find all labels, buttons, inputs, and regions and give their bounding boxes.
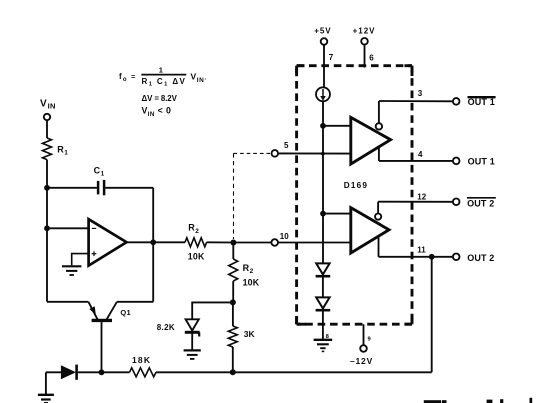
- svg-text:fo =: fo =: [119, 72, 137, 83]
- svg-text:VIN < 0: VIN < 0: [142, 106, 172, 118]
- node junction bottom: [230, 369, 236, 375]
- wire to zener branch: [192, 302, 233, 318]
- wire op-amp inverting input: [47, 227, 89, 229]
- svg-text:7: 7: [329, 53, 334, 62]
- svg-text:9: 9: [368, 337, 372, 343]
- wire bubble to pin12: [377, 202, 379, 214]
- wire R2 to junction: [207, 241, 234, 243]
- svg-text:6: 6: [369, 54, 374, 63]
- wire op-amp output: [127, 241, 154, 243]
- formula fo = 1/(R1 C1 dV) VIN: [119, 66, 207, 88]
- terminal pin 10: [271, 239, 278, 246]
- node junction buffer2: [320, 211, 326, 217]
- wire pin 3 out: [379, 100, 453, 102]
- wire op-amp noninverting stub: [72, 254, 89, 266]
- wire to buffer2 input: [323, 213, 351, 215]
- wire pin 12 out: [378, 201, 453, 203]
- svg-text:11: 11: [417, 245, 426, 254]
- op-amp U1: [89, 219, 127, 265]
- wire between diodes: [322, 276, 324, 297]
- node junction feedback: [429, 254, 435, 260]
- minus mark: [92, 227, 96, 229]
- svg-text:D169: D169: [344, 181, 368, 190]
- node output junction: [150, 239, 156, 245]
- wire junction to R2v: [232, 243, 234, 260]
- wire +5V pin 7: [323, 45, 325, 88]
- wire 3K to bottom rail: [232, 347, 234, 372]
- wire stub to ground: [45, 372, 47, 394]
- wire pin10 into box: [278, 242, 351, 244]
- wire junction to 3K: [232, 302, 234, 326]
- plus mark: [92, 251, 97, 256]
- buffer U2a: [351, 117, 391, 164]
- node junction: [44, 225, 50, 231]
- ground op-amp: [62, 266, 81, 275]
- wire pin5 into box: [278, 152, 351, 154]
- wire output to R2: [153, 241, 185, 243]
- terminal OUT1: [453, 156, 495, 166]
- svg-text:3K: 3K: [244, 329, 256, 339]
- svg-text:R2: R2: [188, 223, 199, 235]
- wire C1 to right rail: [105, 187, 153, 189]
- svg-text:–12V: –12V: [350, 356, 373, 366]
- wire buffer2 lower output stub: [378, 236, 380, 257]
- terminal pin 5: [272, 150, 279, 157]
- wire bottom rail left: [46, 371, 62, 373]
- node junction buffer1: [320, 123, 326, 129]
- node junction: [99, 369, 105, 375]
- wire current source down rail: [322, 101, 324, 263]
- resistor 18K: [130, 355, 156, 377]
- svg-text:+5V: +5V: [314, 27, 331, 36]
- resistor R1: [43, 138, 52, 160]
- terminal +5V: [314, 27, 331, 45]
- svg-text:R1: R1: [57, 144, 68, 156]
- svg-text:3: 3: [418, 89, 423, 98]
- terminal VIN: [44, 114, 50, 120]
- diode D2 in box: [316, 263, 331, 276]
- wire junction to pin10 terminal: [233, 242, 271, 244]
- node junction R2s: [230, 240, 236, 246]
- wire buffer1 lower output stub: [378, 147, 380, 161]
- node junction: [44, 185, 50, 191]
- dashed box D169 package: [297, 66, 412, 325]
- resistor R2 horizontal 10K: [185, 223, 207, 262]
- svg-text:8.2K: 8.2K: [157, 323, 175, 332]
- svg-text:10K: 10K: [243, 277, 260, 287]
- node junction 8.2K branch: [230, 299, 236, 305]
- svg-text:ΔV = 8.2V: ΔV = 8.2V: [142, 94, 178, 103]
- svg-text:12: 12: [417, 193, 426, 202]
- buffer U2b: [351, 208, 389, 253]
- terminal OUT2 inverted: [453, 198, 496, 209]
- svg-text:OUT 2: OUT 2: [467, 199, 494, 209]
- svg-text:4: 4: [418, 150, 423, 159]
- terminal OUT1 inverted: [453, 97, 496, 107]
- resistor R2 vertical 10K: [229, 259, 260, 287]
- ground in box: [314, 340, 333, 352]
- terminal OUT2: [453, 253, 495, 263]
- wire dashed option horizontal: [234, 152, 271, 154]
- wire bubble to pin3: [378, 101, 380, 123]
- figure caption fragment: [424, 398, 532, 403]
- terminal -12V pin 9: [350, 324, 373, 366]
- svg-text:OUT 1: OUT 1: [468, 156, 495, 166]
- svg-text:R1 C1 ΔV: R1 C1 ΔV: [142, 77, 187, 88]
- svg-text:VIN: VIN: [40, 98, 56, 110]
- svg-text:VIN.: VIN.: [191, 72, 207, 84]
- wire zener to ground: [191, 334, 193, 350]
- svg-text:Q1: Q1: [120, 308, 131, 317]
- svg-text:10: 10: [280, 232, 289, 241]
- svg-text:5: 5: [284, 141, 289, 150]
- wire pin 4 out: [379, 160, 453, 162]
- current source I1: [316, 87, 330, 101]
- wire bottom rail right: [156, 371, 432, 373]
- node small junction: [321, 152, 325, 156]
- wire diode to ground pin 8: [322, 310, 324, 339]
- wire to C1: [47, 187, 97, 189]
- svg-text:1: 1: [159, 66, 163, 75]
- svg-text:10K: 10K: [188, 252, 205, 262]
- wire feedback right rail: [152, 188, 154, 302]
- wire Q1 base lead: [101, 322, 103, 372]
- wire to buffer1 input: [323, 125, 351, 127]
- wire: [46, 120, 48, 138]
- wire diode to junction: [78, 371, 130, 373]
- wire feedback from OUT2: [431, 257, 433, 373]
- resistor 3K: [228, 326, 255, 347]
- svg-text:C1: C1: [94, 166, 105, 178]
- svg-text:OUT 2: OUT 2: [467, 253, 494, 263]
- capacitor C1: [94, 166, 105, 196]
- svg-text:R2: R2: [243, 263, 254, 275]
- svg-text:18K: 18K: [132, 355, 151, 365]
- inverting bubble: [376, 123, 382, 129]
- zener diode 8.2K: [157, 319, 200, 336]
- svg-text:+12V: +12V: [353, 27, 376, 36]
- diode D3 in box: [316, 297, 331, 310]
- terminal +12V: [353, 27, 376, 45]
- svg-text:OUT 1: OUT 1: [468, 97, 495, 107]
- wire left rail: [46, 160, 48, 302]
- wire pin 11 out: [379, 256, 453, 258]
- wire +12V pin 6: [364, 45, 366, 68]
- wire dashed option vertical: [233, 153, 235, 239]
- diode D1: [61, 365, 77, 380]
- wire R2v to junction: [232, 281, 234, 302]
- ground bottom-left: [38, 395, 54, 403]
- inverting bubble: [375, 214, 381, 220]
- ground zener: [184, 350, 201, 359]
- transistor Q1: [47, 302, 153, 321]
